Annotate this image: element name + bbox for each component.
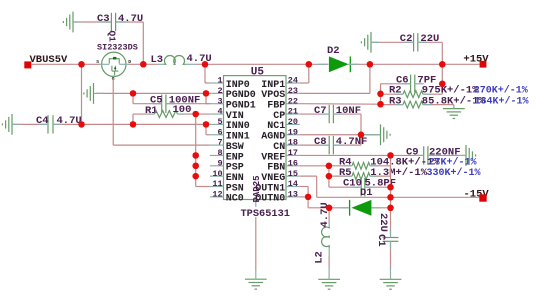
node junction xyxy=(387,205,393,211)
ground xyxy=(443,108,465,110)
svg-text:VNEG: VNEG xyxy=(261,173,285,184)
port +15V xyxy=(463,54,489,68)
node junction xyxy=(367,61,373,67)
wire xyxy=(300,103,381,106)
wire xyxy=(328,176,330,187)
wire xyxy=(391,154,424,156)
resistor R1 xyxy=(145,104,191,118)
svg-text:BSW: BSW xyxy=(226,142,244,153)
wire xyxy=(12,123,48,125)
svg-text:C8: C8 xyxy=(314,136,327,148)
transistor Q1 xyxy=(96,31,138,83)
capacitor C5 xyxy=(150,95,200,113)
svg-text:1: 1 xyxy=(217,76,222,86)
wire xyxy=(390,241,392,268)
wire xyxy=(31,63,100,65)
svg-text:6: 6 xyxy=(217,127,222,137)
node junction xyxy=(439,61,445,67)
wire xyxy=(350,63,479,65)
wire xyxy=(328,257,330,268)
diode D1 xyxy=(350,187,373,216)
ground xyxy=(465,145,467,166)
wire -15V rail xyxy=(317,196,480,198)
node junction xyxy=(78,61,84,67)
svg-text:PAD25: PAD25 xyxy=(252,175,262,202)
node junction xyxy=(78,121,84,127)
svg-text:VPOS: VPOS xyxy=(261,90,285,101)
svg-text:INP0: INP0 xyxy=(226,80,250,91)
component pin stubs xyxy=(102,21,111,23)
diode D2 xyxy=(327,45,350,72)
node junction xyxy=(193,111,199,117)
wire xyxy=(333,113,361,115)
svg-text:S: S xyxy=(96,59,99,65)
ground xyxy=(245,278,267,280)
node junction xyxy=(358,132,364,138)
wire xyxy=(367,186,391,188)
wire xyxy=(381,83,411,85)
svg-text:CN: CN xyxy=(273,142,285,153)
node junction xyxy=(439,81,445,87)
node junctions overlay xyxy=(78,61,84,67)
wire xyxy=(300,134,381,136)
wire xyxy=(307,197,309,208)
wire xyxy=(300,154,391,156)
ground xyxy=(380,124,382,145)
wire xyxy=(380,94,382,104)
svg-text:FBP: FBP xyxy=(267,101,285,112)
wire xyxy=(328,166,330,176)
resistor R5 xyxy=(339,167,481,180)
svg-text:FBN: FBN xyxy=(267,163,285,174)
svg-text:4.7NF: 4.7NF xyxy=(336,136,368,148)
svg-text:24: 24 xyxy=(288,76,298,86)
node junction xyxy=(387,194,393,200)
capacitor C9 xyxy=(406,146,461,164)
svg-text:AGND: AGND xyxy=(261,132,285,143)
wire xyxy=(96,92,210,94)
wire xyxy=(53,123,210,125)
svg-text:13: 13 xyxy=(288,189,298,199)
wire xyxy=(418,41,442,43)
wire xyxy=(128,63,158,65)
ground xyxy=(93,83,95,104)
svg-text:D1: D1 xyxy=(360,187,373,199)
node junction xyxy=(193,163,199,169)
wire enable bus xyxy=(195,114,197,186)
node junction xyxy=(326,173,332,179)
svg-text:PSP: PSP xyxy=(226,163,244,174)
capacitor C4 xyxy=(36,115,82,134)
wire xyxy=(372,207,391,209)
wire xyxy=(300,196,308,198)
svg-text:SI2323DS: SI2323DS xyxy=(97,43,138,53)
svg-text:23: 23 xyxy=(288,86,298,96)
wire xyxy=(300,113,329,115)
svg-text:PGND0: PGND0 xyxy=(226,90,256,101)
wire xyxy=(308,64,310,83)
svg-text:27K+/-1%: 27K+/-1% xyxy=(429,157,477,169)
wire xyxy=(371,41,413,43)
wire xyxy=(196,63,328,65)
svg-text:C4: C4 xyxy=(36,115,49,127)
node junction xyxy=(326,163,332,169)
svg-text:8: 8 xyxy=(217,148,222,158)
svg-text:20: 20 xyxy=(288,117,298,127)
svg-text:10NF: 10NF xyxy=(336,105,361,117)
capacitor C3 xyxy=(97,13,143,31)
svg-text:NC1: NC1 xyxy=(267,121,285,132)
svg-text:NC0: NC0 xyxy=(226,194,244,205)
svg-text:C2: C2 xyxy=(400,33,413,45)
wire xyxy=(178,113,210,115)
wire xyxy=(300,165,329,167)
ground xyxy=(370,32,372,53)
svg-text:CP: CP xyxy=(273,111,285,122)
op-amp U1 IC U5 TPS65131 xyxy=(210,67,300,220)
svg-text:14: 14 xyxy=(288,179,298,189)
svg-text:17: 17 xyxy=(288,148,298,158)
svg-text:C3: C3 xyxy=(97,13,110,25)
ground xyxy=(380,278,402,280)
svg-text:C7: C7 xyxy=(314,105,327,117)
wire xyxy=(441,64,443,94)
wire xyxy=(381,93,404,95)
svg-text:11: 11 xyxy=(212,179,222,189)
node junction xyxy=(306,61,312,67)
svg-text:U5: U5 xyxy=(251,67,265,79)
svg-text:9: 9 xyxy=(217,158,222,168)
wire xyxy=(133,113,155,115)
node junction xyxy=(202,61,208,67)
port -15V xyxy=(464,188,490,201)
wire xyxy=(204,64,206,83)
resistor R4 xyxy=(339,157,477,170)
wire xyxy=(428,154,466,156)
svg-text:22U: 22U xyxy=(377,213,389,232)
capacitor C7 xyxy=(314,105,361,123)
wire Q1 gate to BSW xyxy=(112,78,114,145)
wire xyxy=(166,103,210,105)
svg-text:10: 10 xyxy=(212,169,222,179)
svg-text:3: 3 xyxy=(217,96,222,106)
wire xyxy=(329,165,352,167)
svg-text:VREF: VREF xyxy=(261,152,285,163)
svg-text:7: 7 xyxy=(217,138,222,148)
inductor L3 xyxy=(151,53,212,66)
svg-text:5: 5 xyxy=(217,117,222,127)
svg-text:ENN: ENN xyxy=(226,173,244,184)
ground xyxy=(11,114,13,135)
wire xyxy=(81,64,83,124)
resistor R2 xyxy=(389,85,528,98)
svg-text:12: 12 xyxy=(212,189,222,199)
wire xyxy=(329,207,348,209)
node junction xyxy=(326,205,332,211)
node junction xyxy=(377,101,383,107)
svg-text:VIN: VIN xyxy=(226,111,244,122)
wire xyxy=(333,144,361,146)
capacitor C1 xyxy=(375,213,399,247)
svg-text:TPS65131: TPS65131 xyxy=(241,208,290,220)
wire xyxy=(205,124,207,134)
node junction xyxy=(377,91,383,97)
svg-text:15: 15 xyxy=(288,169,298,179)
wire xyxy=(255,217,257,270)
node junction xyxy=(140,61,146,67)
svg-text:L2: L2 xyxy=(313,251,325,264)
svg-text:4: 4 xyxy=(217,107,222,117)
svg-text:134K+/-1%: 134K+/-1% xyxy=(475,95,529,107)
ground xyxy=(318,278,340,280)
svg-text:R3: R3 xyxy=(389,95,402,107)
svg-text:PGND1: PGND1 xyxy=(226,101,256,112)
node junction xyxy=(130,90,136,96)
svg-text:16: 16 xyxy=(288,158,298,168)
svg-text:22: 22 xyxy=(288,96,298,106)
svg-text:Q1: Q1 xyxy=(107,31,118,43)
svg-text:18: 18 xyxy=(288,138,298,148)
capacitor C8 xyxy=(314,136,367,154)
svg-text:INP1: INP1 xyxy=(261,80,285,91)
svg-text:PSN: PSN xyxy=(226,183,244,194)
capacitor C10 xyxy=(343,178,396,197)
svg-text:ENP: ENP xyxy=(226,152,244,163)
wire xyxy=(116,21,144,23)
capacitor C6 xyxy=(396,75,436,94)
wire xyxy=(369,64,371,93)
svg-text:2: 2 xyxy=(217,86,222,96)
capacitor C2 xyxy=(400,33,440,52)
resistor R3 xyxy=(389,95,529,108)
node junction xyxy=(387,152,393,158)
node junction xyxy=(193,173,199,179)
wire main vertical xyxy=(390,155,392,235)
svg-text:21: 21 xyxy=(288,107,298,117)
svg-text:19: 19 xyxy=(288,127,298,137)
inductor L2 xyxy=(313,202,331,264)
wire xyxy=(300,186,308,188)
svg-text:4.7U: 4.7U xyxy=(57,115,82,127)
wire xyxy=(300,175,317,177)
wire xyxy=(205,93,207,103)
svg-text:22U: 22U xyxy=(420,33,439,45)
wire xyxy=(132,93,134,103)
svg-text:D2: D2 xyxy=(327,45,340,57)
svg-text:4.7U: 4.7U xyxy=(118,13,143,25)
svg-text:INN0: INN0 xyxy=(226,121,250,132)
wire xyxy=(73,21,111,23)
node junction xyxy=(203,90,209,96)
node junction xyxy=(387,184,393,190)
node junction xyxy=(130,121,136,127)
svg-text:INN1: INN1 xyxy=(226,132,250,143)
svg-text:330K+/-1%: 330K+/-1% xyxy=(427,167,481,179)
wire xyxy=(300,144,329,146)
node junction xyxy=(305,194,311,200)
node junction xyxy=(203,121,209,127)
ground xyxy=(72,12,74,33)
svg-text:C1: C1 xyxy=(375,234,387,247)
port VBUS5V xyxy=(24,54,68,68)
node junction xyxy=(193,152,199,158)
wire xyxy=(329,175,352,177)
wire xyxy=(381,104,404,106)
